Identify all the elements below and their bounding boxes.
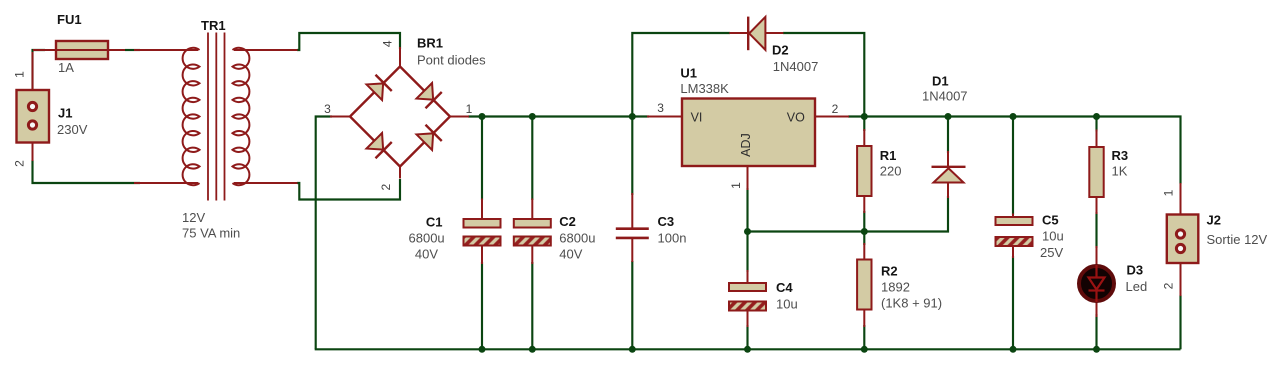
svg-text:Pont diodes: Pont diodes	[417, 53, 486, 68]
svg-text:10u: 10u	[776, 297, 798, 312]
svg-text:230V: 230V	[57, 122, 88, 137]
svg-text:R1: R1	[880, 148, 897, 163]
svg-text:Led: Led	[1126, 279, 1148, 294]
wire BR1 pin3 to ground rail	[316, 117, 332, 350]
bridge diode B-R	[416, 125, 442, 151]
svg-text:VI: VI	[691, 111, 703, 125]
svg-text:C5: C5	[1042, 213, 1059, 228]
node R2 gnd	[861, 346, 868, 353]
bridge diode L-B	[366, 133, 392, 159]
wire D2 branch left	[632, 33, 730, 117]
wire J1 pin1 to FU1	[33, 50, 46, 91]
node junction dots	[479, 113, 1101, 353]
wire ground rail	[315, 348, 1181, 350]
svg-text:40V: 40V	[415, 247, 438, 262]
svg-text:1N4007: 1N4007	[922, 89, 968, 104]
svg-text:1: 1	[729, 182, 743, 189]
wire TR1 secondary top to BR1 pin4	[297, 33, 400, 50]
capacitor C2	[514, 199, 551, 265]
wire J2 pin2 to ground rail	[1179, 295, 1181, 349]
wire U1 ADJ to node	[746, 188, 748, 233]
svg-text:C3: C3	[658, 214, 675, 229]
svg-text:J1: J1	[58, 106, 72, 121]
svg-text:1A: 1A	[58, 60, 74, 75]
svg-text:75 VA min: 75 VA min	[182, 226, 240, 241]
wire node to R2 top	[863, 232, 865, 246]
led D3	[1079, 246, 1114, 317]
svg-text:BR1: BR1	[417, 36, 443, 51]
svg-text:1892: 1892	[881, 280, 910, 295]
svg-text:100n: 100n	[658, 231, 687, 246]
svg-text:4: 4	[381, 40, 395, 47]
node C5 top	[1010, 113, 1017, 120]
bridge diode T-R	[416, 83, 442, 109]
capacitor C4	[729, 270, 766, 327]
svg-text:R2: R2	[881, 264, 898, 279]
capacitor C3	[616, 193, 649, 262]
svg-text:D3: D3	[1127, 263, 1144, 278]
svg-text:1N4007: 1N4007	[773, 59, 819, 74]
capacitor C5	[996, 214, 1033, 259]
node C1 top	[479, 113, 486, 120]
svg-text:6800u: 6800u	[559, 231, 595, 246]
wire C3 bottom	[631, 261, 633, 349]
svg-text:220: 220	[880, 164, 902, 179]
svg-text:FU1: FU1	[57, 12, 82, 27]
node C3 D2 top	[629, 113, 636, 120]
svg-text:ADJ: ADJ	[739, 133, 753, 157]
node C4 gnd	[744, 346, 751, 353]
node C2 gnd	[529, 346, 536, 353]
wire TR1 secondary bottom to BR1 pin2	[297, 179, 400, 200]
wire C4 top	[746, 232, 748, 273]
svg-text:2: 2	[13, 160, 27, 167]
svg-text:R3: R3	[1112, 148, 1129, 163]
svg-text:10u: 10u	[1042, 229, 1064, 244]
resistor R2	[857, 243, 871, 327]
wire C2 top	[531, 117, 533, 201]
connector J1	[17, 52, 50, 161]
wire J1 pin2 to TR1 primary bottom	[33, 160, 141, 183]
svg-text:25V: 25V	[1040, 245, 1063, 260]
wire R3 to D3	[1095, 212, 1097, 248]
wire D3 bottom	[1095, 314, 1097, 349]
regulator U1	[647, 99, 849, 191]
svg-text:6800u: 6800u	[409, 231, 445, 246]
svg-text:3: 3	[657, 101, 664, 115]
svg-text:J2: J2	[1207, 213, 1221, 228]
svg-text:12V: 12V	[182, 210, 205, 225]
svg-text:(1K8 + 91): (1K8 + 91)	[881, 296, 942, 311]
node D3 gnd	[1093, 346, 1100, 353]
svg-text:LM338K: LM338K	[680, 81, 729, 96]
node ADJ	[744, 228, 751, 235]
node C5 gnd	[1010, 346, 1017, 353]
bridge BR1	[330, 47, 469, 179]
wire C1 top	[481, 117, 483, 201]
wire C2 bottom	[531, 262, 533, 349]
svg-text:40V: 40V	[559, 247, 582, 262]
wire D1 top	[947, 117, 949, 154]
svg-text:TR1: TR1	[201, 18, 226, 33]
svg-text:2: 2	[379, 184, 393, 191]
diode D1	[932, 151, 966, 198]
svg-text:Sortie 12V: Sortie 12V	[1207, 232, 1268, 247]
node C2 top	[529, 113, 536, 120]
resistor R3	[1089, 130, 1103, 215]
wire R1 top	[863, 117, 865, 132]
node C3 gnd	[629, 346, 636, 353]
wire R3 top	[1095, 117, 1097, 132]
node VO	[861, 113, 868, 120]
wire C5 bottom	[1012, 256, 1014, 349]
node R3 top	[1093, 113, 1100, 120]
wire C1 bottom	[481, 262, 483, 349]
svg-text:D1: D1	[932, 74, 949, 89]
wire C5 top	[1012, 117, 1014, 216]
connector J2	[1167, 183, 1199, 296]
svg-text:2: 2	[832, 102, 839, 116]
svg-text:1: 1	[1162, 189, 1176, 196]
svg-text:VO: VO	[787, 111, 805, 125]
transformer TR1	[134, 33, 298, 201]
svg-text:C2: C2	[559, 214, 576, 229]
wire C3 top	[631, 117, 633, 196]
node R1 R2	[861, 228, 868, 235]
wire C4 bottom	[746, 325, 748, 349]
node C1 gnd	[479, 346, 486, 353]
svg-text:1: 1	[466, 102, 473, 116]
svg-text:3: 3	[324, 102, 331, 116]
wire FU1 to TR1 primary top	[125, 49, 140, 51]
wire ADJ node to D1 anode	[748, 196, 949, 232]
node D1 top	[945, 113, 952, 120]
svg-text:C1: C1	[426, 215, 443, 230]
svg-text:2: 2	[1162, 282, 1176, 289]
svg-text:U1: U1	[680, 66, 697, 81]
wire D2 branch right	[783, 33, 864, 117]
wire BR1 pin1 to U1 VI	[468, 115, 649, 117]
bridge diode L-T	[366, 75, 392, 101]
capacitor C1	[464, 199, 501, 265]
fuse FU1	[33, 41, 125, 59]
svg-text:D2: D2	[772, 42, 789, 57]
wire U1 VO to J2 output rail	[848, 117, 1181, 185]
svg-text:1: 1	[13, 71, 27, 78]
wire R2 bottom	[863, 325, 865, 349]
svg-text:C4: C4	[776, 280, 793, 295]
resistor R1	[857, 129, 871, 213]
wire R1 bottom to node	[863, 211, 865, 232]
svg-text:1K: 1K	[1112, 164, 1128, 179]
diode D2	[729, 17, 783, 51]
